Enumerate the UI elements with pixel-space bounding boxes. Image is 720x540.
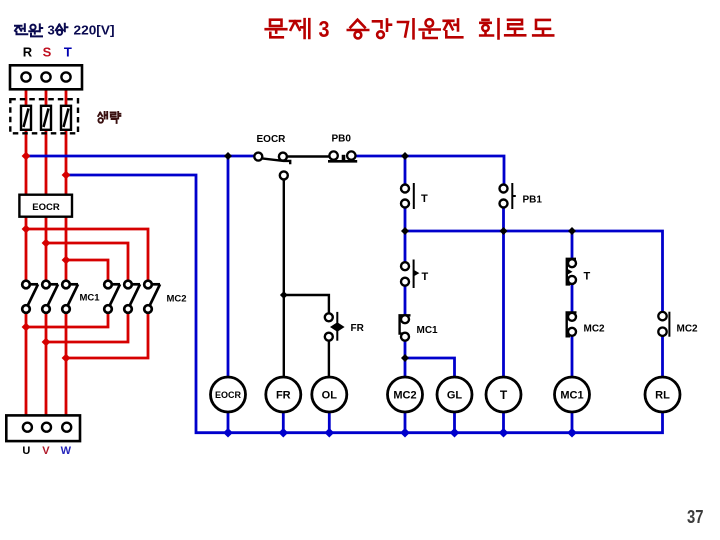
wire R phase lower vertical [25, 313, 28, 423]
svg-text:MC2: MC2 [393, 390, 416, 402]
wire T phase vertical [65, 81, 68, 281]
wire MC2 pole2 to S line [46, 313, 128, 342]
contactor MC1 pole3 [62, 281, 78, 313]
junction rail2 MC1 branch [568, 227, 576, 235]
svg-text:R: R [23, 45, 33, 60]
svg-text:V: V [42, 445, 50, 457]
coil RL [645, 377, 680, 412]
junction S lower [42, 338, 51, 347]
contact MC2 nc [567, 312, 577, 336]
svg-text:U: U [22, 445, 30, 457]
wire S to MC2 pole2 [46, 243, 128, 281]
svg-text:MC1: MC1 [417, 325, 439, 336]
wire R phase vertical [25, 81, 28, 281]
junction rail1 branch1 [401, 152, 409, 160]
wire OL coil feed [328, 341, 330, 377]
contactor MC1 pole2 [42, 281, 58, 313]
bus dots [223, 428, 577, 438]
pushbutton PB0 [328, 151, 357, 161]
svg-text:MC1: MC1 [80, 293, 101, 304]
junction GL branch [401, 354, 409, 362]
wire coil bottom stubs [228, 412, 572, 433]
wire control rail left blue [26, 155, 254, 158]
fuse box dashed [10, 99, 78, 133]
wire S phase lower vertical [45, 313, 48, 423]
svg-text:W: W [61, 445, 72, 457]
wire branch RL coil [661, 336, 664, 378]
coil EOCR [211, 377, 246, 412]
svg-text:MC2: MC2 [584, 324, 606, 335]
contact EOCR changeover [254, 153, 329, 295]
contact T no2 [401, 260, 419, 289]
junction rail1 EOCR drop [224, 152, 232, 160]
svg-text:FR: FR [276, 390, 291, 402]
terminal block top [10, 65, 82, 89]
svg-text:3: 3 [319, 16, 330, 42]
coil FR [266, 377, 301, 412]
svg-text:EOCR: EOCR [257, 134, 287, 145]
wire branch MC1 coil [571, 231, 574, 377]
relay box EOCR [19, 195, 72, 217]
junction T mid [62, 256, 71, 265]
junction T lower [62, 354, 71, 363]
fuse F2 [41, 106, 51, 130]
coil T [486, 377, 521, 412]
svg-text:MC2: MC2 [677, 324, 699, 335]
contact FR flicker [325, 312, 345, 341]
contactor MC1 pole1 [22, 281, 38, 313]
wire FR OL black branch [284, 295, 329, 313]
svg-text:T: T [584, 271, 591, 283]
svg-text:T: T [421, 193, 428, 205]
contact T nc [567, 259, 576, 285]
contactor MC2 pole3 [144, 281, 160, 313]
svg-text:37: 37 [687, 507, 704, 527]
label 전원 3상 220[V] [15, 23, 115, 38]
fuse F1 [21, 106, 31, 130]
svg-text:T: T [422, 271, 429, 283]
junction rail2 T coil [500, 227, 508, 235]
junction rail2 branch1 [401, 227, 409, 235]
contact MC1 nc [400, 315, 411, 341]
wire T phase lower vertical [65, 313, 68, 423]
label 생략 [98, 112, 120, 123]
junction R top [22, 152, 31, 161]
wire MC2 pole3 to T line [66, 313, 148, 358]
svg-text:FR: FR [351, 323, 365, 334]
wire rail2 [405, 231, 663, 312]
wire control rail right blue [356, 156, 504, 185]
svg-text:T: T [64, 45, 72, 60]
wire T-phase branch to bus [66, 175, 663, 433]
svg-text:RL: RL [655, 390, 670, 402]
coil OL [312, 377, 347, 412]
svg-text:3: 3 [48, 23, 55, 38]
wire PB1 to T coil [502, 208, 505, 378]
svg-text:T: T [500, 388, 508, 402]
wire S phase vertical [45, 81, 48, 281]
svg-text:OL: OL [322, 390, 338, 402]
svg-text:EOCR: EOCR [215, 390, 242, 400]
wire GL branch [405, 358, 455, 377]
wire branch1 lower segments [404, 231, 407, 377]
wire T to MC2 pole1 [66, 260, 108, 281]
contactor MC2 pole2 [124, 281, 140, 313]
svg-text:S: S [43, 45, 52, 60]
contact MC2 no [658, 312, 669, 337]
title 문제3 승강기운전 회로도 [266, 16, 554, 42]
wire FR coil feed [283, 295, 285, 377]
terminal block bottom [6, 415, 80, 441]
svg-text:PB1: PB1 [523, 195, 543, 206]
pushbutton PB1 [500, 183, 516, 209]
wire MC2 pole1 to R line [26, 313, 108, 327]
svg-text:GL: GL [447, 390, 463, 402]
junction S mid [42, 239, 51, 248]
contactor MC2 pole1 [104, 281, 120, 313]
coil MC1 [555, 377, 590, 412]
fuse F3 [61, 106, 71, 130]
junction R mid [22, 225, 31, 234]
svg-text:MC2: MC2 [167, 294, 187, 305]
svg-text:MC1: MC1 [560, 390, 583, 402]
coil MC2 [388, 377, 423, 412]
junction FR branch [280, 291, 288, 299]
junction R lower [22, 323, 31, 332]
contact T no1 [401, 183, 414, 209]
wire R to MC2 pole3 [26, 229, 148, 281]
svg-text:EOCR: EOCR [32, 202, 60, 213]
wire branch1 upper [404, 156, 407, 231]
coil GL [437, 377, 472, 412]
svg-text:220[V]: 220[V] [74, 23, 115, 38]
wire EOCR coil drop [227, 156, 230, 377]
junction T top [62, 171, 71, 180]
svg-text:PB0: PB0 [332, 134, 352, 145]
